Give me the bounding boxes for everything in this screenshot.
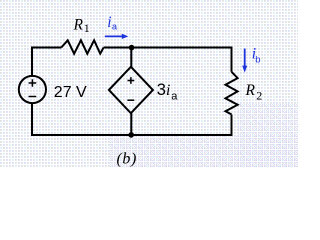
svg-text:R: R <box>245 82 256 99</box>
svg-text:3: 3 <box>157 81 166 99</box>
minus sign of source <box>29 96 37 98</box>
denser texture bottom-right <box>238 104 298 168</box>
current arrow ia <box>105 34 129 39</box>
node junction dot bottom <box>128 132 134 138</box>
voltage source V1 27 V <box>19 76 46 103</box>
plus sign of source <box>29 79 37 87</box>
svg-text:i: i <box>107 14 111 31</box>
resistor R1 <box>61 40 103 53</box>
dependent source 3ia (diamond) <box>109 67 153 113</box>
halftone background texture <box>0 0 298 168</box>
current arrow ib <box>242 49 247 73</box>
resistor R2 <box>226 72 238 115</box>
wire: right vertical upper <box>231 47 233 72</box>
svg-text:a: a <box>112 22 117 32</box>
wire: middle vertical lower <box>130 113 132 135</box>
svg-text:R: R <box>73 17 84 34</box>
svg-text:27 V: 27 V <box>54 84 87 101</box>
svg-text:a: a <box>171 90 178 102</box>
wire: bottom horizontal <box>31 134 232 136</box>
minus sign of dependent source <box>128 99 135 101</box>
svg-text:2: 2 <box>256 89 262 103</box>
svg-text:i: i <box>166 82 170 99</box>
plus sign of dependent source <box>128 77 135 84</box>
wire: top right segment <box>104 47 232 49</box>
svg-text:(b): (b) <box>117 150 137 167</box>
wire: top left segment <box>32 47 61 49</box>
wire: middle vertical upper <box>130 48 132 67</box>
wire: left vertical lower <box>31 103 33 136</box>
wire: right vertical lower <box>231 114 233 136</box>
node junction dot top <box>129 45 135 51</box>
svg-text:1: 1 <box>84 23 90 35</box>
svg-text:b: b <box>255 54 260 65</box>
wire: left vertical upper <box>31 47 33 77</box>
